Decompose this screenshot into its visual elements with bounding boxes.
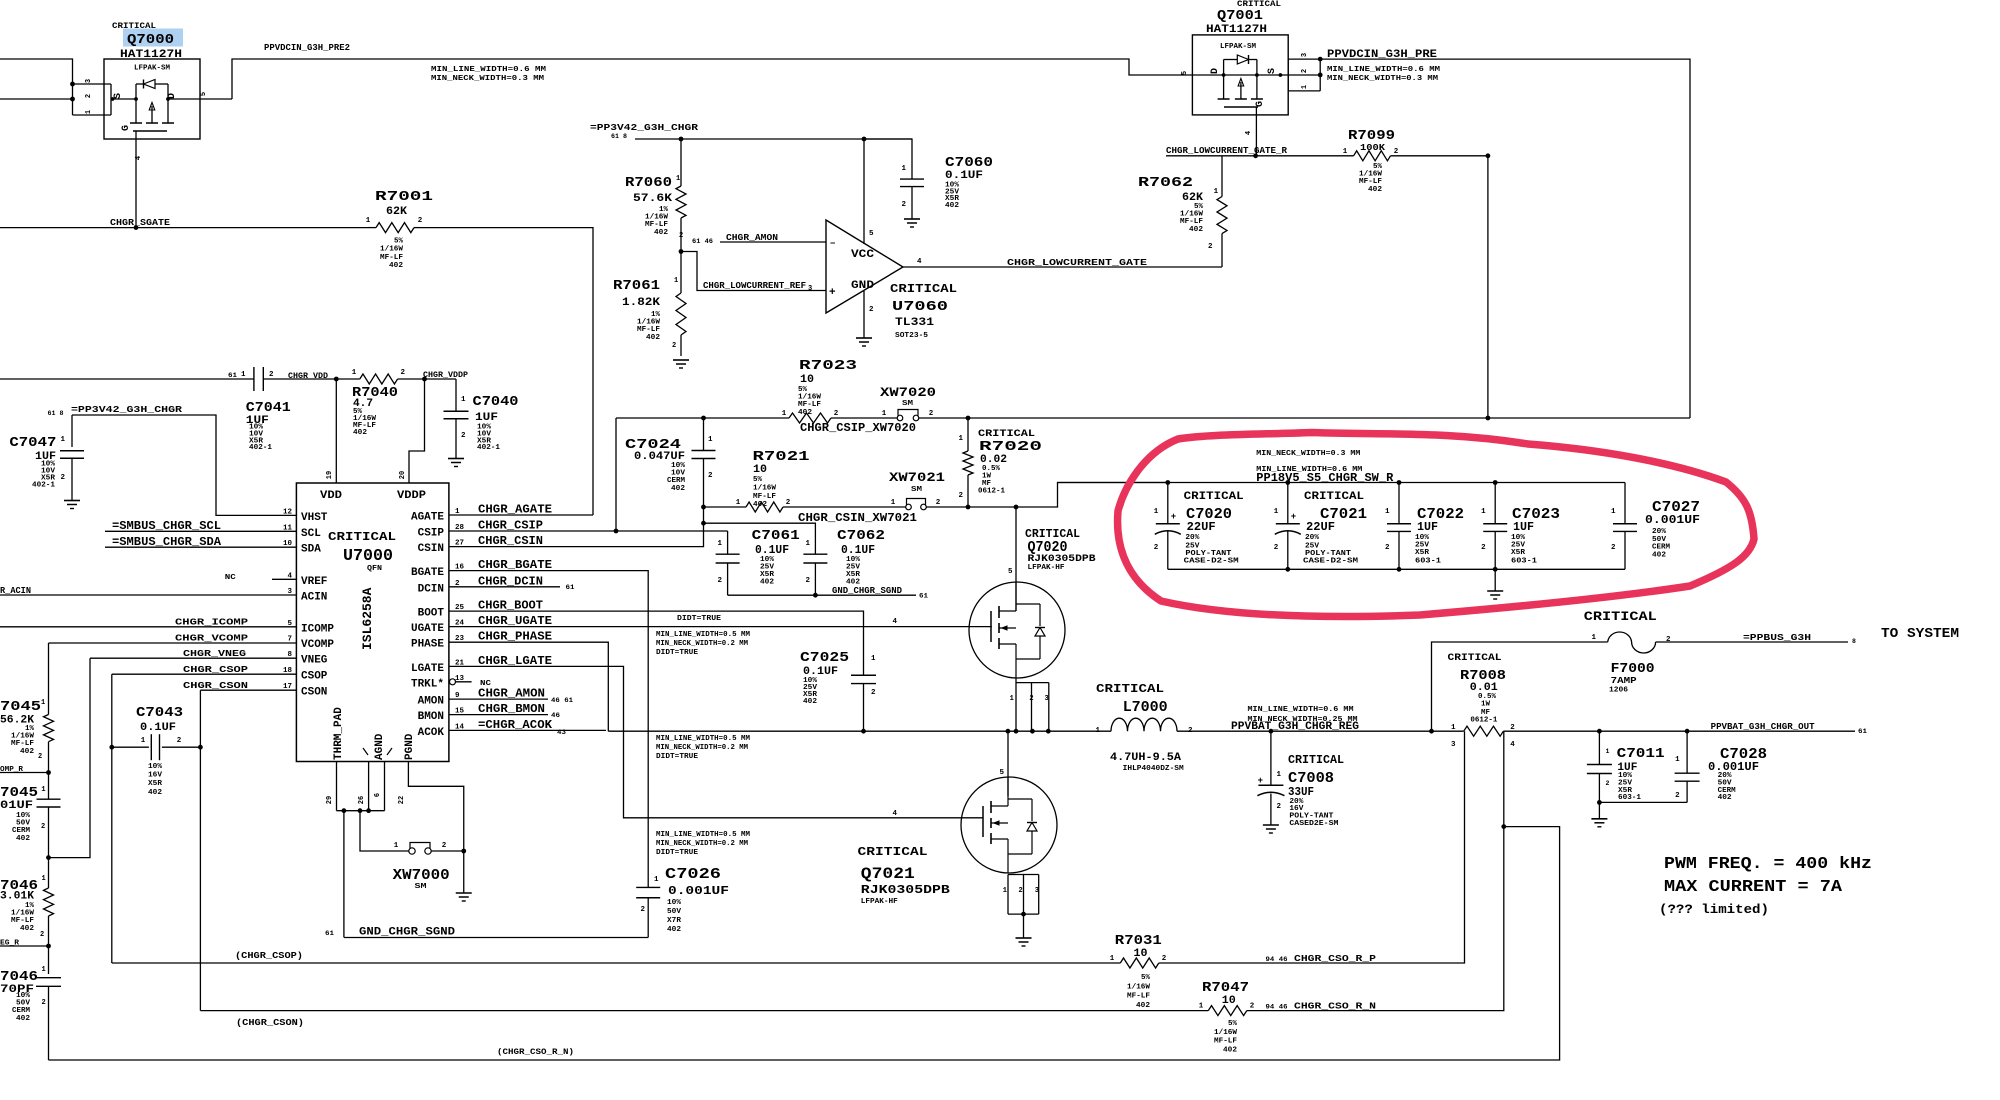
svg-text:G: G — [1255, 101, 1266, 107]
svg-text:1: 1 — [42, 966, 46, 974]
jumper XW7021 — [906, 504, 912, 510]
wire =CHGR_ACOK stub — [449, 729, 606, 731]
svg-text:C7025: C7025 — [800, 650, 849, 666]
svg-text:=PPBUS_G3H: =PPBUS_G3H — [1743, 632, 1811, 643]
wire R7021 to XW7021 — [783, 506, 906, 508]
svg-text:402: 402 — [1368, 186, 1382, 194]
svg-text:16V: 16V — [148, 772, 163, 780]
svg-text:402-1: 402-1 — [249, 444, 273, 452]
svg-text:SM: SM — [902, 400, 914, 408]
svg-text:2: 2 — [38, 753, 42, 761]
wire AGND junction row — [337, 810, 385, 812]
svg-text:CHGR_LOWCURRENT_GATE_R: CHGR_LOWCURRENT_GATE_R — [1166, 145, 1287, 156]
svg-text:1UF: 1UF — [1417, 520, 1438, 534]
wire CHGR_ACIN — [0, 594, 296, 596]
node Q7000 S — [111, 97, 115, 101]
node C7062 gnd junction — [813, 593, 818, 598]
transistor Q7000 body box — [104, 59, 200, 139]
node R7046 C7046 junction — [46, 944, 51, 949]
svg-text:2: 2 — [1274, 544, 1279, 552]
node Q7020 drain branch — [1014, 505, 1019, 510]
svg-text:1: 1 — [805, 540, 810, 548]
svg-text:402: 402 — [753, 501, 767, 509]
svg-text:ACIN: ACIN — [301, 592, 327, 604]
svg-text:MIN_LINE_WIDTH=0.6 MM: MIN_LINE_WIDTH=0.6 MM — [1327, 66, 1441, 74]
wire C7041 to R7040 — [263, 378, 360, 380]
svg-text:6: 6 — [374, 793, 382, 797]
wire GND_CHGR_SGND lower — [344, 937, 648, 939]
jumper XW7000 — [409, 848, 415, 854]
svg-text:LFPAK-HF: LFPAK-HF — [1028, 564, 1065, 572]
wire CSIN rail — [704, 506, 747, 508]
svg-text:L7000: L7000 — [1123, 699, 1168, 716]
svg-text:OMP_R: OMP_R — [0, 766, 24, 774]
svg-text:TO SYSTEM: TO SYSTEM — [1881, 627, 1959, 642]
node Q7000 pin3 junction — [70, 82, 75, 87]
svg-text:1: 1 — [41, 786, 45, 794]
svg-text:1: 1 — [891, 499, 896, 507]
wire PPVDCIN_G3H_PRE2 to Q7001 — [232, 59, 1192, 99]
svg-text:SM: SM — [415, 883, 428, 891]
svg-text:Q7001: Q7001 — [1217, 8, 1263, 24]
wire CHGR_VNEG_R link — [49, 658, 91, 857]
wire Q7001 internal D-S — [1192, 74, 1320, 76]
svg-text:33UF: 33UF — [1288, 785, 1314, 799]
svg-text:3: 3 — [1301, 53, 1309, 57]
svg-text:X5R: X5R — [1415, 549, 1430, 557]
wire AGND pin26 — [368, 762, 370, 811]
svg-text:VREF: VREF — [301, 576, 327, 588]
svg-text:1W: 1W — [1481, 701, 1491, 709]
node C7008 tap — [1269, 729, 1274, 734]
svg-text:1: 1 — [85, 110, 93, 114]
wire Q7000 S internal — [111, 98, 136, 100]
svg-text:1: 1 — [1274, 508, 1279, 516]
node PPVDCIN pin2 — [1318, 73, 1323, 78]
node CHGR_VDDP junction — [422, 377, 427, 382]
svg-text:LFPAK-SM: LFPAK-SM — [1220, 43, 1256, 51]
svg-text:1: 1 — [871, 655, 876, 663]
svg-text:VDD: VDD — [320, 490, 342, 502]
resistor R7001 — [376, 223, 414, 233]
svg-text:10%: 10% — [667, 899, 682, 907]
svg-text:61: 61 — [919, 593, 928, 600]
transistor Q7020 source pin box — [1016, 682, 1049, 684]
wire CHGR_UGATE — [449, 626, 992, 628]
capacitor C7040 — [455, 379, 457, 411]
svg-text:BGATE: BGATE — [411, 567, 444, 579]
node R7099 right — [1486, 153, 1491, 158]
svg-text:Q7000: Q7000 — [127, 32, 174, 48]
svg-text:S: S — [113, 93, 124, 99]
wire Q7000 source feed — [0, 98, 73, 100]
svg-text:402-1: 402-1 — [32, 482, 56, 490]
wire =PPBUS_G3H — [1656, 641, 1848, 643]
wire SGND drop — [343, 811, 345, 938]
op-amp U7060 — [826, 220, 903, 313]
svg-text:46 61: 46 61 — [551, 697, 573, 704]
svg-text:61: 61 — [1858, 728, 1867, 735]
svg-text:603-1: 603-1 — [1618, 794, 1642, 802]
capacitor C7028 — [1686, 731, 1688, 773]
capacitor C7025 — [863, 674, 865, 676]
svg-text:402: 402 — [671, 485, 685, 493]
svg-text:43: 43 — [557, 729, 566, 736]
node R7060 top — [679, 137, 684, 142]
svg-text:QFN: QFN — [367, 565, 382, 573]
svg-text:402: 402 — [20, 748, 34, 756]
svg-text:X5R: X5R — [148, 780, 163, 788]
svg-text:CHGR_CSOP: CHGR_CSOP — [183, 664, 248, 675]
svg-text:1: 1 — [461, 396, 466, 404]
svg-text:R7023: R7023 — [799, 358, 857, 374]
svg-text:2: 2 — [1611, 544, 1616, 552]
svg-text:1: 1 — [676, 175, 680, 183]
svg-text:MIN_NECK_WIDTH=0.3 MM: MIN_NECK_WIDTH=0.3 MM — [431, 75, 545, 83]
svg-text:50V: 50V — [667, 908, 682, 916]
capacitor C7026 — [636, 886, 660, 888]
svg-text:DIDT=TRUE: DIDT=TRUE — [656, 649, 699, 657]
svg-text:CHGR_CSIN: CHGR_CSIN — [478, 534, 543, 548]
svg-text:20%: 20% — [1305, 534, 1320, 542]
svg-text:1: 1 — [674, 277, 678, 285]
svg-text:5: 5 — [999, 769, 1004, 777]
svg-text:U7060: U7060 — [892, 299, 948, 315]
svg-text:1UF: 1UF — [1513, 520, 1534, 534]
svg-text:SM: SM — [911, 486, 923, 494]
svg-text:CHGR_CSO_R_N: CHGR_CSO_R_N — [1294, 1001, 1376, 1012]
svg-text:CHGR_VNEG: CHGR_VNEG — [183, 648, 246, 659]
svg-text:CSIP: CSIP — [418, 528, 445, 540]
svg-text:DIDT=TRUE: DIDT=TRUE — [656, 753, 699, 761]
svg-text:2: 2 — [1675, 792, 1680, 800]
wire (CHGR_CSOP) line — [112, 962, 1121, 964]
svg-text:1: 1 — [1591, 634, 1596, 642]
svg-text:NC: NC — [225, 574, 237, 582]
node Q7020 source 1 — [1014, 729, 1019, 734]
svg-text:20: 20 — [399, 471, 407, 479]
svg-text:LFPAK-SM: LFPAK-SM — [134, 65, 170, 73]
wire CHGR_AMON to opamp — [720, 241, 826, 243]
svg-text:CHGR_LOWCURRENT_GATE: CHGR_LOWCURRENT_GATE — [1007, 257, 1147, 268]
svg-text:=SMBUS_CHGR_SDA: =SMBUS_CHGR_SDA — [112, 535, 222, 549]
transistor Q7001 MOSFET internals — [1255, 73, 1259, 77]
svg-text:10%: 10% — [148, 763, 163, 771]
svg-text:2: 2 — [1018, 887, 1022, 895]
wire CHGR_CSOP — [112, 673, 297, 675]
wire CHGR_VDDP — [398, 378, 456, 380]
svg-text:1: 1 — [1199, 1003, 1204, 1011]
resistor R7099 — [1354, 151, 1391, 161]
svg-text:1: 1 — [1301, 85, 1309, 89]
svg-text:94 46: 94 46 — [1266, 1004, 1288, 1011]
svg-text:TRKL*: TRKL* — [411, 678, 444, 690]
svg-text:1: 1 — [394, 842, 399, 850]
svg-text:CRITICAL: CRITICAL — [328, 530, 396, 544]
svg-text:4: 4 — [892, 810, 897, 818]
ground C7047 — [64, 500, 80, 502]
svg-text:UGATE: UGATE — [411, 623, 444, 635]
svg-text:61: 61 — [325, 930, 334, 937]
node R7020 top — [966, 416, 971, 421]
fuse F7000 — [1608, 632, 1656, 653]
svg-text:1: 1 — [1010, 695, 1014, 703]
wire R7023 to XW7020 — [831, 417, 897, 419]
svg-text:MIN_NECK_WIDTH=0.2 MM: MIN_NECK_WIDTH=0.2 MM — [656, 840, 749, 848]
svg-text:62K: 62K — [386, 206, 407, 218]
svg-text:2: 2 — [85, 94, 93, 98]
svg-text:402: 402 — [353, 429, 367, 437]
svg-text:402: 402 — [646, 334, 660, 342]
svg-text:1UF: 1UF — [475, 412, 498, 424]
svg-text:MIN_NECK_WIDTH=0.25 MM: MIN_NECK_WIDTH=0.25 MM — [1248, 716, 1359, 724]
node CSIP branch — [614, 529, 619, 534]
svg-text:2: 2 — [418, 217, 423, 225]
wire =SMBUS_CHGR_SDA — [105, 546, 296, 548]
svg-text:+: + — [1171, 512, 1176, 522]
svg-text:61 8: 61 8 — [48, 410, 64, 417]
svg-text:MIN_LINE_WIDTH=0.6 MM: MIN_LINE_WIDTH=0.6 MM — [1248, 706, 1355, 714]
transistor Q7000 MOSFET internals — [134, 97, 138, 101]
svg-text:VDDP: VDDP — [397, 490, 426, 502]
svg-text:CHGR_CSIP: CHGR_CSIP — [478, 519, 543, 533]
svg-text:94 46: 94 46 — [1266, 956, 1288, 963]
node R7020 bottom — [966, 505, 971, 510]
svg-text:PPVDCIN_G3H_PRE: PPVDCIN_G3H_PRE — [1327, 49, 1437, 61]
wire CHGR_LOWCURRENT_GATE_R — [1166, 155, 1354, 157]
svg-text:MIN_LINE_WIDTH=0.5 MM: MIN_LINE_WIDTH=0.5 MM — [656, 735, 751, 743]
wire CHGR_CSON — [200, 689, 296, 691]
svg-text:CSOP: CSOP — [301, 671, 328, 683]
svg-text:CHGR_SGATE: CHGR_SGATE — [110, 217, 170, 228]
resistor R7023 — [789, 413, 831, 423]
svg-text:CRITICAL: CRITICAL — [1304, 491, 1364, 503]
wire to XW7000 — [360, 811, 409, 851]
svg-text:=PP3V42_G3H_CHGR: =PP3V42_G3H_CHGR — [590, 122, 698, 133]
svg-text:1/16W: 1/16W — [380, 246, 404, 254]
svg-text:MIN_LINE_WIDTH=0.5 MM: MIN_LINE_WIDTH=0.5 MM — [656, 831, 751, 839]
svg-text:CRITICAL: CRITICAL — [1288, 753, 1344, 767]
svg-text:1: 1 — [1214, 188, 1219, 196]
capacitor C7011 — [1598, 731, 1600, 764]
diode Q7000 body diode — [136, 83, 144, 85]
resistor R7047 — [1208, 1006, 1247, 1016]
svg-text:603-1: 603-1 — [1415, 558, 1442, 566]
wire CHGR_CSO_R_P — [1159, 731, 1465, 963]
svg-text:5%: 5% — [394, 238, 404, 246]
wire CSIP upper rail — [616, 417, 789, 419]
capacitor C7021 — [1287, 483, 1289, 524]
svg-text:3: 3 — [85, 79, 93, 83]
red annotation circle — [1118, 433, 1754, 617]
svg-text:10: 10 — [1134, 948, 1148, 960]
ground U7060 — [856, 337, 872, 339]
svg-text:2: 2 — [708, 472, 713, 480]
transistor Q7021 RJK0305DPB — [961, 777, 1057, 873]
svg-text:2: 2 — [269, 371, 274, 379]
svg-text:1: 1 — [708, 436, 713, 444]
svg-text:CSIN: CSIN — [418, 543, 444, 555]
capacitor C7047 — [71, 415, 73, 447]
wire CHGR_BOOT — [449, 611, 864, 675]
node C7025 bottom — [861, 729, 866, 734]
node Q7021 drain — [1006, 729, 1011, 734]
svg-text:1: 1 — [901, 165, 906, 173]
svg-text:LGATE: LGATE — [411, 663, 444, 675]
wire to fuse — [1432, 642, 1608, 731]
svg-text:CSON: CSON — [301, 687, 327, 699]
node PPVDCIN pin3 — [1318, 57, 1323, 62]
svg-text:2: 2 — [958, 492, 963, 500]
wire CHGR_DCIN stub — [449, 586, 560, 588]
diode Q7001 body diode — [1223, 60, 1225, 76]
capacitor C7027 — [1624, 483, 1626, 524]
capacitor C7046 — [48, 946, 50, 974]
wire CHGR_AGATE — [449, 514, 593, 516]
svg-text:X7R: X7R — [667, 917, 682, 925]
svg-text:4: 4 — [135, 156, 143, 160]
svg-text:2: 2 — [672, 342, 676, 350]
wire Q7001 gate down — [1255, 107, 1257, 156]
node C7011 gnd junction — [1597, 800, 1602, 805]
svg-text:+: + — [1291, 512, 1296, 522]
wire R7099 junction down to CSIP rail — [1487, 156, 1489, 418]
svg-text:CRITICAL: CRITICAL — [890, 282, 957, 296]
node sense branch — [1501, 824, 1506, 829]
svg-text:CASE-D2-SM: CASE-D2-SM — [1303, 558, 1359, 566]
svg-text:=SMBUS_CHGR_SCL: =SMBUS_CHGR_SCL — [112, 519, 221, 533]
wire C7028 to gnd rail — [1599, 801, 1687, 803]
transistor Q7000 pin box — [73, 83, 112, 85]
svg-text:2: 2 — [42, 999, 46, 1007]
node Q7000 pin2 junction — [70, 97, 75, 102]
svg-text:VCC: VCC — [851, 249, 874, 261]
svg-text:1/16W: 1/16W — [753, 484, 777, 492]
svg-text:2: 2 — [871, 689, 876, 697]
svg-text:C7041: C7041 — [246, 400, 291, 416]
svg-text:1: 1 — [41, 699, 45, 707]
svg-text:402: 402 — [760, 579, 774, 587]
svg-text:XW7021: XW7021 — [889, 470, 945, 485]
svg-text:(CHGR_CSON): (CHGR_CSON) — [236, 1017, 304, 1028]
svg-text:4: 4 — [1245, 131, 1253, 135]
svg-text:2: 2 — [929, 410, 934, 418]
ground Q7021 — [1023, 914, 1025, 938]
svg-text:0.001UF: 0.001UF — [668, 884, 729, 898]
svg-text:ICOMP: ICOMP — [301, 623, 334, 635]
svg-text:(CHGR_CSOP): (CHGR_CSOP) — [235, 950, 303, 961]
wire PGND pin22 — [408, 762, 463, 894]
node Q7001 S — [1279, 73, 1283, 77]
wire CHGR_VDD left — [0, 378, 254, 380]
svg-text:2: 2 — [1606, 780, 1610, 787]
svg-text:20%: 20% — [1652, 528, 1667, 536]
wire CHGR_SGATE to AGATE vertical — [414, 227, 420, 229]
svg-text:MF-LF: MF-LF — [380, 254, 403, 262]
svg-text:1: 1 — [352, 369, 357, 377]
svg-text:2: 2 — [679, 232, 683, 240]
svg-text:26: 26 — [358, 796, 366, 804]
svg-text:AGND: AGND — [374, 733, 386, 760]
wire XW7000 to PGND — [431, 850, 464, 852]
gate plate Q7000 — [133, 130, 167, 132]
svg-text:C7060: C7060 — [945, 155, 993, 171]
wire CHGR_AMON stub — [449, 698, 548, 700]
svg-text:S: S — [1267, 68, 1278, 74]
svg-text:1: 1 — [1675, 756, 1680, 764]
svg-text:2: 2 — [1301, 69, 1309, 73]
svg-text:5: 5 — [1181, 71, 1189, 75]
svg-text:2: 2 — [60, 474, 65, 482]
svg-text:CHGR_VCOMP: CHGR_VCOMP — [175, 633, 248, 644]
svg-text:7045: 7045 — [0, 785, 38, 801]
svg-text:CHGR_ICOMP: CHGR_ICOMP — [175, 617, 248, 628]
svg-text:0612-1: 0612-1 — [1470, 717, 1498, 725]
capacitor C7023 — [1494, 483, 1496, 524]
resistor R7045 — [48, 643, 50, 715]
svg-text:5%: 5% — [1141, 974, 1151, 982]
svg-text:SOT23-5: SOT23-5 — [895, 332, 928, 340]
svg-text:C7011: C7011 — [1617, 746, 1665, 762]
svg-text:1: 1 — [654, 876, 659, 884]
svg-text:CHGR_CSO_R_P: CHGR_CSO_R_P — [1294, 953, 1376, 964]
resistor R7031 — [1120, 958, 1159, 968]
ground C7008 — [1263, 824, 1279, 826]
svg-text:402: 402 — [1223, 1046, 1237, 1054]
gate plate Q7001 — [1224, 106, 1258, 108]
svg-text:402: 402 — [803, 698, 817, 706]
svg-text:2: 2 — [786, 499, 791, 507]
svg-text:MF-LF: MF-LF — [1127, 993, 1150, 1001]
svg-text:PHASE: PHASE — [411, 639, 444, 651]
svg-text:AMON: AMON — [418, 696, 444, 708]
svg-text:402: 402 — [389, 262, 403, 270]
svg-text:1.82K: 1.82K — [622, 297, 660, 309]
wire to cap bank rail — [1016, 483, 1168, 508]
svg-text:2: 2 — [901, 201, 906, 209]
svg-text:C7047: C7047 — [9, 435, 56, 451]
svg-text:1: 1 — [1611, 508, 1616, 516]
wire CSIP rail to PPVDCIN vertical — [968, 417, 1690, 419]
wire C7062 branch — [704, 523, 816, 554]
svg-text:CHGR_BOOT: CHGR_BOOT — [478, 599, 543, 613]
svg-text:XW7000: XW7000 — [393, 867, 450, 884]
ground C7060 — [904, 218, 920, 220]
svg-text:CASE-D2-SM: CASE-D2-SM — [1184, 558, 1240, 566]
svg-text:2: 2 — [717, 577, 722, 585]
svg-text:CHGR_CSON: CHGR_CSON — [183, 680, 248, 691]
svg-text:XW7020: XW7020 — [880, 385, 936, 400]
wire CHGR_ICOMP — [0, 626, 296, 628]
svg-text:+: + — [1258, 776, 1263, 786]
svg-text:1: 1 — [1003, 887, 1007, 895]
node R7045 C7045 junction — [46, 770, 51, 775]
svg-text:HAT1127H: HAT1127H — [120, 49, 182, 61]
node CSIN rail left — [701, 505, 706, 510]
wire PPVDCIN_G3H_PRE to right — [1320, 59, 1690, 418]
wire CHGR_VCOMP — [49, 642, 297, 644]
capacitor C7024 — [703, 418, 705, 451]
svg-text:R7021: R7021 — [753, 449, 810, 465]
svg-text:1: 1 — [1095, 727, 1100, 735]
svg-text:PPVBAT_G3H_CHGR_OUT: PPVBAT_G3H_CHGR_OUT — [1711, 721, 1815, 732]
svg-text:2: 2 — [461, 432, 466, 440]
svg-text:57.6K: 57.6K — [633, 193, 672, 205]
node Q7021 source gnd — [1021, 912, 1026, 917]
svg-text:GND_CHGR_SGND: GND_CHGR_SGND — [832, 585, 902, 596]
svg-text:7AMP: 7AMP — [1611, 676, 1638, 686]
svg-text:ACOK: ACOK — [418, 727, 445, 739]
